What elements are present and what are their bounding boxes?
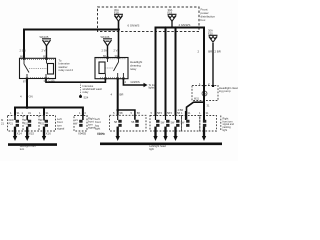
svg-text:light: light xyxy=(223,129,228,132)
svg-text:4 BR: 4 BR xyxy=(178,108,184,112)
svg-text:58: 58 xyxy=(114,120,118,124)
svg-text:31: 31 xyxy=(46,111,49,115)
svg-text:X15: X15 xyxy=(29,131,34,135)
svg-text:6 GN/WS: 6 GN/WS xyxy=(128,24,140,28)
svg-text:X16: X16 xyxy=(46,131,51,135)
svg-text:X14: X14 xyxy=(17,131,22,135)
svg-text:X9455: X9455 xyxy=(78,132,87,136)
svg-text:2 SW: 2 SW xyxy=(20,49,27,53)
svg-text:5W: 5W xyxy=(161,121,165,124)
svg-text:lights: lights xyxy=(149,87,156,90)
svg-text:BR: BR xyxy=(208,50,212,54)
svg-text:X164: X164 xyxy=(97,132,104,136)
svg-text:31: 31 xyxy=(28,111,31,115)
svg-text:58: 58 xyxy=(131,120,135,124)
svg-text:2 VI: 2 VI xyxy=(42,49,47,53)
svg-text:31: 31 xyxy=(206,111,209,115)
svg-text:58: 58 xyxy=(120,111,123,115)
svg-text:5W: 5W xyxy=(181,121,185,124)
svg-text:31: 31 xyxy=(17,111,20,115)
svg-text:S24: S24 xyxy=(84,95,89,99)
svg-text:5W: 5W xyxy=(171,121,175,124)
svg-text:relay: relay xyxy=(130,67,137,71)
svg-text:relay: relay xyxy=(83,90,89,94)
svg-text:P21: P21 xyxy=(24,122,29,125)
svg-text:21: 21 xyxy=(1,122,4,126)
svg-text:2 BR: 2 BR xyxy=(215,50,221,54)
svg-text:box: box xyxy=(201,18,206,22)
svg-text:GN/WS: GN/WS xyxy=(131,80,140,84)
svg-text:ing pump: ing pump xyxy=(219,89,231,93)
svg-text:M31: M31 xyxy=(194,97,199,100)
svg-text:P21: P21 xyxy=(40,122,45,125)
svg-text:58: 58 xyxy=(137,111,140,115)
svg-text:2 VI: 2 VI xyxy=(114,49,119,53)
svg-text:BR: BR xyxy=(120,93,124,97)
svg-text:GN: GN xyxy=(29,95,33,99)
svg-text:2 SW: 2 SW xyxy=(102,49,109,53)
svg-text:31: 31 xyxy=(188,111,191,115)
svg-text:relay mod 2: relay mod 2 xyxy=(59,68,74,72)
svg-text:light: light xyxy=(149,147,154,151)
svg-text:P21: P21 xyxy=(9,122,14,125)
svg-text:light: light xyxy=(95,127,100,131)
svg-text:4 GN/WS: 4 GN/WS xyxy=(179,23,191,27)
svg-text:turn: turn xyxy=(20,147,25,151)
svg-text:signal: signal xyxy=(57,127,65,131)
